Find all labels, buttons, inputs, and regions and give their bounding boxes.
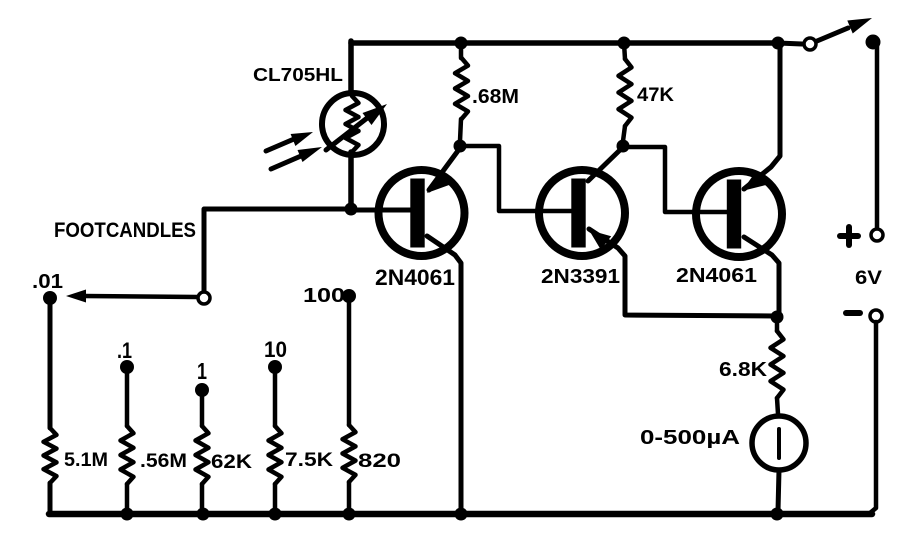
wire - terminal to bottom rail: [870, 322, 876, 513]
Q2 emitter arrow: [589, 229, 775, 316]
terminal 10: [268, 360, 282, 374]
junction Q1 collector bottom rail: [455, 508, 468, 521]
resistor 820: [343, 425, 356, 514]
terminal 100: [342, 289, 356, 303]
Q3 emitter arrow: [744, 43, 780, 189]
svg-text:.01: .01: [32, 271, 63, 293]
junction .68M / Q1 emitter / Q2 base: [454, 140, 467, 153]
battery - symbol: [846, 310, 860, 316]
bottom rail: [49, 511, 872, 518]
terminal 1: [195, 383, 209, 397]
svg-text:2N3391: 2N3391: [541, 265, 620, 288]
svg-text:.68M: .68M: [472, 86, 519, 108]
junction 47K / Q2 collector / Q3 base: [617, 140, 630, 153]
wire .68M node to Q2 base: [460, 146, 576, 211]
svg-text:CL705HL: CL705HL: [253, 64, 343, 85]
battery + terminal: [871, 229, 883, 241]
Q2 collector: [588, 149, 621, 181]
svg-text:6.8K: 6.8K: [719, 359, 768, 381]
svg-text:62K: 62K: [211, 452, 252, 473]
switch S1 pole terminal: [804, 38, 816, 50]
terminal .1: [120, 360, 134, 374]
wire .01 terminal to R 5.1M: [48, 298, 53, 428]
switch S1 blade with arrow: [817, 18, 872, 41]
selector arrow wire to .01: [66, 290, 197, 303]
junction rail R 820: [343, 508, 356, 521]
selector wiper terminal: [198, 292, 210, 304]
svg-text:7.5K: 7.5K: [285, 450, 333, 471]
resistor 62K: [196, 426, 209, 514]
wire meter to bottom rail: [778, 470, 779, 511]
transistor Q1 2N4061: [379, 148, 465, 512]
junction top rail switch: [772, 37, 785, 50]
light arrow 2: [271, 147, 322, 169]
svg-text:100: 100: [303, 285, 345, 307]
wire 1 terminal to R 62K: [200, 390, 205, 426]
junction rail R .56M: [121, 508, 134, 521]
wire .1 terminal to R .56M: [125, 367, 130, 426]
resistor 6.8K: [771, 317, 784, 414]
junction rail R 7.5K: [269, 508, 282, 521]
Q1 emitter arrow: [429, 148, 460, 190]
junction Q3 collector / Q2 emitter / R 6.8K: [771, 311, 784, 324]
terminal .01: [43, 291, 57, 305]
svg-text:10: 10: [264, 337, 287, 362]
wire Q1 base: [351, 208, 414, 213]
svg-text:820: 820: [358, 451, 401, 472]
transistor Q2 2N3391: [539, 149, 775, 316]
wire switch to + terminal: [875, 45, 880, 227]
wire photocell to base node: [348, 152, 354, 206]
top supply rail: [351, 40, 778, 46]
svg-text:.1: .1: [117, 338, 132, 363]
svg-text:47K: 47K: [637, 84, 674, 106]
transistor Q3 2N4061: [696, 43, 782, 313]
battery + symbol: [840, 227, 858, 245]
junction node A photocell/selector/Q1 base: [345, 203, 358, 216]
resistor 7.5K: [269, 426, 282, 514]
svg-text:0-500µA: 0-500µA: [640, 426, 740, 449]
wire rail to photocell: [348, 41, 354, 92]
svg-text:FOOTCANDLES: FOOTCANDLES: [54, 219, 196, 242]
photocell CL705HL: [322, 93, 387, 155]
junction top rail R 47K: [618, 37, 631, 50]
wire 47K node to Q3 base: [623, 147, 731, 212]
svg-text:1: 1: [197, 358, 207, 384]
svg-text:2N4061: 2N4061: [375, 265, 455, 290]
junction meter bottom rail: [771, 508, 784, 521]
resistor 47K: [619, 43, 632, 141]
wire 10 terminal to R 7.5K: [273, 367, 278, 426]
junction top rail R .68M: [455, 37, 468, 50]
resistor .56M: [121, 426, 134, 514]
resistor 5.1M: [44, 428, 57, 514]
svg-text:.56M: .56M: [140, 451, 187, 472]
switch S1 throw contact: [866, 35, 881, 50]
resistor .68M: [455, 43, 468, 141]
battery - terminal: [870, 310, 882, 322]
meter M1 0-500uA: [752, 416, 806, 470]
svg-text:5.1M: 5.1M: [64, 450, 108, 471]
Q3 collector: [744, 237, 779, 313]
svg-text:2N4061: 2N4061: [676, 264, 757, 287]
Q1 collector: [427, 236, 461, 512]
wire rail to switch pole: [778, 43, 802, 44]
wire 100 terminal to R 820: [347, 296, 352, 425]
light arrow 1: [266, 132, 313, 151]
junction rail R 62K: [197, 508, 210, 521]
svg-text:6V: 6V: [855, 268, 882, 289]
wire node A to selector: [204, 209, 351, 293]
